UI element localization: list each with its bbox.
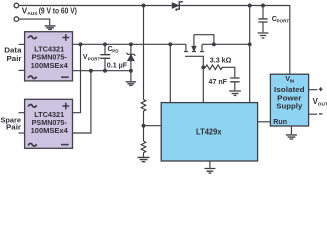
wire top rail VAUX to diode <box>19 5 173 7</box>
ground G4 <box>229 91 241 95</box>
node dot drain riser <box>248 42 252 46</box>
Q1 gate bar <box>185 56 203 102</box>
svg-text:(9 V to 60 V): (9 V to 60 V) <box>39 7 77 16</box>
node dot CPD top <box>103 42 107 46</box>
resistor R1 3.3k <box>203 65 235 77</box>
node dot gate-drain <box>212 42 216 46</box>
U2 pin ~ top-left <box>28 105 36 108</box>
node dot zener top <box>129 42 133 46</box>
wire U1 data pin b <box>19 69 25 71</box>
node dot CPORT <box>261 4 265 8</box>
wire Rbot to ground <box>143 152 145 156</box>
ground G2 <box>126 82 136 86</box>
svg-text:100MSEx4: 100MSEx4 <box>31 126 69 135</box>
label VOUT <box>313 97 327 108</box>
wire zener to ground <box>130 71 132 81</box>
zener D2 <box>130 44 132 70</box>
wire Run <box>258 121 271 123</box>
node dot LT429x riser1 <box>168 42 172 46</box>
label VAUX (9 V to 60 V) <box>22 7 77 18</box>
svg-text:OUT: OUT <box>318 102 327 108</box>
svg-text:0.1 µF: 0.1 µF <box>107 61 128 70</box>
svg-text:Pair: Pair <box>7 54 22 63</box>
wire U4 ground stub <box>290 126 292 134</box>
svg-text:IN: IN <box>290 78 295 83</box>
U2 pin ~ bottom-left <box>28 143 36 146</box>
svg-text:Run: Run <box>273 118 287 126</box>
wire VOUT- <box>309 113 318 115</box>
svg-text:AUX: AUX <box>27 11 38 17</box>
wire U2 minus riser <box>73 71 91 133</box>
wire VPORT+ rail <box>73 43 186 45</box>
wire rail1 to LT429x riser <box>249 6 251 103</box>
ground G3 <box>138 157 150 161</box>
capacitor CPD <box>104 44 106 70</box>
wire U2 spare pin b <box>19 132 25 134</box>
svg-text:Supply: Supply <box>276 102 303 111</box>
wire drain rail <box>202 43 250 45</box>
label VPORT <box>83 54 101 62</box>
U1 pin ~ bottom-left <box>28 76 36 79</box>
wire U1 data pin a <box>19 43 25 45</box>
wire VPORT- rail <box>73 70 131 72</box>
svg-text:3.3 kΩ: 3.3 kΩ <box>210 55 232 64</box>
wire top rail diode to VIN corner <box>180 6 290 75</box>
wire Q1 gate loop to drain <box>194 35 214 45</box>
capacitor CPORT <box>262 6 264 33</box>
U1 pin ~ top-left <box>28 36 36 39</box>
transistor Q1 mosfet <box>185 44 187 51</box>
wire VAUX- to ground <box>19 19 50 25</box>
label Data Pair <box>4 46 22 64</box>
wire divider to LT429x <box>144 125 162 127</box>
label CPORT <box>272 14 290 23</box>
IC U3 LT429x box <box>161 103 257 161</box>
ground G5 <box>205 169 216 174</box>
node dot 3.3k <box>201 65 205 69</box>
svg-text:100MSEx4: 100MSEx4 <box>31 61 69 70</box>
wire LT429x ground stub <box>209 161 211 168</box>
wire VOUT+ <box>309 89 318 91</box>
U1 pin + top-right <box>62 34 69 41</box>
svg-text:47 nF: 47 nF <box>209 77 228 86</box>
IC U2 LTC4321 box <box>25 99 73 148</box>
wire divider drop <box>143 6 145 100</box>
ground G1 <box>45 26 56 30</box>
resistor Rtop <box>141 100 146 112</box>
node dot riser2 top <box>89 69 93 73</box>
wire divider mid <box>143 111 145 141</box>
node dot rail1 divider <box>142 4 146 8</box>
node dot divider <box>142 124 146 128</box>
diode D1 schottky <box>172 3 178 8</box>
svg-text:LT429x: LT429x <box>196 128 222 137</box>
ground G7 <box>286 135 297 139</box>
label Spare Pair <box>1 115 22 131</box>
wire U2 plus riser <box>73 44 81 112</box>
node dot zener bottom <box>129 69 133 73</box>
IC U1 LTC4321 box <box>25 32 73 81</box>
svg-text:PORT: PORT <box>277 18 290 23</box>
label plus out <box>319 87 323 91</box>
node dot rail1 riser <box>248 4 252 8</box>
resistor Rbot <box>141 141 146 153</box>
node dot riser1 top <box>79 42 83 46</box>
ground G6 <box>258 33 269 38</box>
svg-text:PORT: PORT <box>88 56 101 61</box>
U1 pin - bottom-right <box>61 76 69 78</box>
label CPD <box>108 44 120 53</box>
U2 pin + top-right <box>62 103 69 110</box>
U2 pin - bottom-right <box>61 144 69 146</box>
terminal VAUX- <box>14 17 19 22</box>
svg-text:Data: Data <box>4 46 22 55</box>
IC U4 isolated power supply box <box>270 74 308 126</box>
wire LT429x top riser1 <box>169 44 171 102</box>
terminal VAUX+ <box>14 3 19 8</box>
wire U2 spare pin a <box>19 112 25 114</box>
svg-text:PD: PD <box>112 48 119 53</box>
capacitor C1 47nF <box>230 78 239 82</box>
node dot CPD bottom <box>103 69 107 73</box>
label minus out <box>319 113 322 115</box>
svg-text:Pair: Pair <box>6 123 21 132</box>
